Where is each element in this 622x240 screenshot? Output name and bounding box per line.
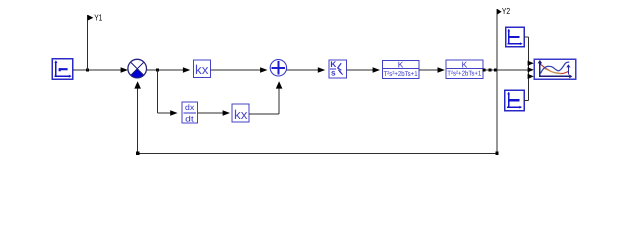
summation block SUM (circle with X, lower sector filled) bbox=[128, 59, 147, 78]
wire gain kX to adder bbox=[211, 67, 268, 72]
junction node (Y1 tap) bbox=[86, 69, 89, 72]
feedback wire bottom run bbox=[134, 81, 497, 153]
svg-text:s: s bbox=[331, 69, 336, 78]
svg-text:T²s²+2bTs+1: T²s²+2bTs+1 bbox=[447, 70, 481, 78]
wire step to summation bbox=[73, 67, 128, 72]
svg-text:Y1: Y1 bbox=[94, 12, 102, 22]
feedback corner node left bbox=[136, 152, 139, 155]
junction node after TF2 bbox=[489, 69, 492, 72]
probe Y2 line (vertical, to feedback) bbox=[497, 6, 510, 154]
svg-text:kx: kx bbox=[234, 107, 248, 122]
step source block STEP2 (scope reference, top) bbox=[506, 27, 524, 47]
wire lower gain up into adder bbox=[249, 81, 282, 114]
wire integrator to transfer function 1 bbox=[346, 67, 380, 72]
svg-text:kx: kx bbox=[195, 62, 209, 77]
wire bus from step sources to scope bbox=[524, 37, 528, 101]
wire derivative to gain kX (lower) bbox=[197, 110, 230, 115]
wire TF2 to scope (main output) bbox=[483, 69, 528, 71]
scope block SCOPE bbox=[534, 59, 576, 79]
wire branch down to derivative bbox=[158, 70, 178, 116]
probe Y1 bbox=[88, 12, 103, 70]
derivative block dx/dt bbox=[182, 102, 198, 123]
junction node (branch to derivative) bbox=[156, 69, 159, 72]
step source block STEP1 (input) bbox=[52, 59, 72, 79]
wire summation to gain kX bbox=[147, 67, 191, 72]
integrator block K/s with limit bbox=[329, 60, 347, 78]
scope input arrow top bbox=[528, 61, 534, 66]
adder block ADD (circle with plus) bbox=[270, 60, 286, 76]
gain block kX (lower) bbox=[232, 104, 249, 122]
scope input arrow bottom bbox=[528, 74, 534, 79]
wire adder to integrator bbox=[287, 67, 326, 72]
junction node at Y2 tap bbox=[494, 69, 497, 72]
svg-text:dt: dt bbox=[185, 114, 195, 123]
gain block kX (upper) bbox=[193, 60, 210, 78]
svg-text:dx: dx bbox=[185, 103, 194, 112]
step source block STEP3 (scope reference, bottom) bbox=[505, 90, 524, 111]
svg-text:K: K bbox=[330, 60, 336, 69]
junction node at TF2 output port bbox=[483, 69, 486, 72]
svg-text:Y2: Y2 bbox=[502, 6, 510, 16]
scope input arrow middle bbox=[528, 67, 534, 72]
feedback corner node right bbox=[495, 152, 498, 155]
transfer function block TF1 K / (T2s2+2bTs+1) bbox=[382, 60, 419, 79]
transfer function block TF2 K / (T2s2+2bTs+1) bbox=[446, 60, 483, 79]
svg-text:T²s²+2bTs+1: T²s²+2bTs+1 bbox=[384, 70, 418, 78]
wire TF1 to TF2 bbox=[419, 67, 445, 72]
